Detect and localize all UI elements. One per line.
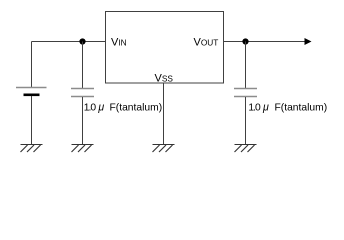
svg-text:μ: μ — [262, 102, 269, 114]
wire: battery positive lead up to main input net — [31, 42, 33, 88]
value label C2 — [248, 102, 327, 114]
C1 bottom plate — [71, 96, 94, 98]
wire: C2 top lead — [245, 42, 247, 89]
svg-text:1.0: 1.0 — [84, 103, 97, 114]
capacitor C2 1.0uF tantalum (output) — [234, 42, 257, 145]
ground (battery) — [21, 145, 43, 153]
svg-text:VSS: VSS — [155, 73, 174, 85]
svg-text:VOUT: VOUT — [194, 37, 219, 49]
svg-text:F(tantalum): F(tantalum) — [110, 103, 163, 114]
battery negative plate (short thick) — [24, 94, 40, 97]
C2 top plate — [234, 88, 257, 90]
wire: output net from VOUT pin — [224, 41, 306, 43]
svg-text:VIN: VIN — [111, 37, 127, 49]
capacitor C1 1.0uF tantalum (input) — [71, 42, 94, 145]
node: output junction — [242, 38, 248, 44]
wire: battery negative lead down to ground — [31, 96, 33, 145]
wire: C1 bottom lead to ground — [82, 97, 84, 145]
node: input junction — [79, 38, 85, 44]
ground (C2) — [235, 145, 257, 153]
wire: C1 top lead — [82, 42, 84, 89]
svg-text:1.0: 1.0 — [248, 103, 261, 114]
svg-text:F(tantalum): F(tantalum) — [275, 103, 328, 114]
battery positive plate (long thin) — [16, 87, 47, 89]
battery B1 (input supply) — [16, 42, 47, 145]
wire: C2 bottom lead to ground — [245, 97, 247, 145]
wire: input net from battery to VIN pin — [32, 41, 107, 43]
value label C1 — [84, 102, 162, 114]
C1 top plate — [71, 88, 94, 90]
ground (C1) — [72, 145, 94, 153]
output arrow — [305, 38, 312, 45]
regulator U1 — [106, 12, 224, 84]
ground (VSS) — [153, 145, 175, 153]
svg-text:μ: μ — [97, 102, 104, 114]
wire: VSS pin to ground — [163, 83, 165, 145]
C2 bottom plate — [234, 96, 257, 98]
